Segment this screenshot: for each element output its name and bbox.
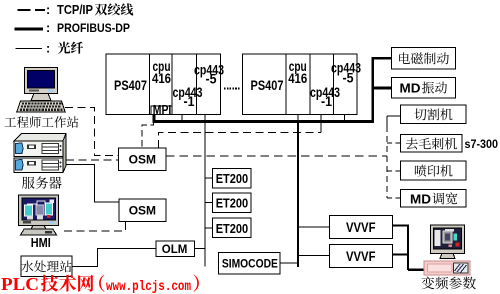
box ET200 #3 [213, 218, 252, 238]
wire dashed TCP/IP workstation to OSM [65, 108, 119, 156]
wire rack2 stub cpu [297, 115, 299, 120]
legend PROFIBUS-DP thick line sample [14, 28, 43, 31]
rack 1 PS407 [106, 54, 224, 115]
wire rack2 stub cp443-1 down to TCP/IP drop [320, 115, 322, 133]
svg-text:ET200: ET200 [216, 221, 249, 236]
workstation computer icon [17, 68, 65, 112]
svg-text:PS407: PS407 [251, 77, 284, 93]
box 喷印机 [401, 161, 467, 180]
dots between racks [224, 88, 241, 90]
wire PROFIBUS-DP main thick bus from MPI [153, 115, 375, 122]
svg-text::: : [46, 42, 50, 56]
rack 1 MPI port box [151, 103, 172, 117]
wire SIMOCODE to thick bus [280, 262, 298, 264]
HMI panel icon [19, 195, 59, 235]
wire dashed TCP/IP MPI jog to OSM top [142, 122, 153, 148]
wire PROFIBUS thick vertical drop to SIMOCODE/VVVF [297, 121, 299, 267]
wire dashed TCP/IP OSM right to s7-300 group [166, 155, 387, 157]
svg-text:ET200: ET200 [216, 171, 249, 186]
wire rack2 stub cp443-5 [344, 115, 346, 120]
box MD调宽 [401, 190, 467, 207]
svg-text:-1: -1 [321, 93, 332, 109]
svg-text:-5: -5 [343, 70, 354, 86]
svg-text:PLC: PLC [1, 274, 39, 294]
wire rack1 stub cp443-1 [181, 115, 183, 120]
legend label TCP/IP 双绞线 [46, 3, 133, 17]
wire VVVF left stubs [298, 227, 330, 256]
box 切割机 [401, 105, 467, 124]
box 水处理站 [21, 256, 72, 277]
wire s7-300 group dashed riser and stubs [387, 126, 401, 198]
wire dashed TCP/IP server to OSM [66, 159, 119, 161]
svg-text:HMI: HMI [31, 236, 51, 250]
wire PROFIBUS vertical drop to ET200/OLM [204, 115, 206, 267]
wire water station to OLM [72, 249, 156, 267]
wire VVVF right thick to frequency computer [392, 225, 424, 270]
svg-text:416: 416 [288, 70, 307, 86]
svg-text::: : [46, 21, 50, 35]
svg-text:s7-300: s7-300 [465, 139, 499, 151]
svg-text:VVVF: VVVF [346, 248, 376, 264]
svg-text:VVVF: VVVF [346, 219, 376, 235]
box 电磁制动 [391, 48, 455, 69]
svg-text:-1: -1 [184, 93, 195, 109]
svg-text:OSM: OSM [129, 204, 156, 218]
svg-text:PS407: PS407 [114, 77, 147, 93]
svg-text:PROFIBUS-DP: PROFIBUS-DP [57, 21, 130, 35]
svg-text:www.plcjs.com: www.plcjs.com [106, 280, 191, 294]
wire OLM to bus [195, 248, 205, 250]
wire dashed TCP/IP OSM to rack2 cp443-1 [158, 133, 321, 148]
rack 2 PS407 [243, 54, 362, 115]
wire ET200 stubs [205, 178, 213, 228]
wire s7-300 group riser (solid top) [387, 116, 401, 126]
svg-text:416: 416 [152, 70, 171, 86]
box VVVF #1 [330, 216, 393, 239]
svg-text:ET200: ET200 [216, 196, 249, 211]
box OSM upper [119, 148, 166, 171]
box MD振动 [391, 77, 455, 98]
label s7-300 [465, 139, 499, 151]
box ET200 #2 [213, 193, 252, 213]
label 变频参数 [422, 277, 476, 290]
legend label PROFIBUS-DP [46, 21, 130, 35]
legend label 光纤 [46, 42, 83, 56]
box 去毛刺机 [401, 135, 463, 153]
svg-text:-5: -5 [206, 71, 217, 87]
box ET200 #1 [213, 168, 252, 188]
svg-text::: : [46, 3, 50, 17]
legend fiber thin line sample [15, 48, 42, 50]
wire thick riser to brake boxes [373, 57, 392, 123]
label HMI [31, 236, 51, 250]
box SIMOCODE [219, 252, 281, 273]
wire dashed HMI to OSM2 [64, 221, 126, 231]
legend TCP/IP dashed line sample [18, 9, 46, 11]
svg-text:OSM: OSM [129, 153, 156, 167]
watermark PLC技术网（www.plcjs.com） [1, 274, 199, 294]
svg-text:TCP/IP: TCP/IP [57, 3, 93, 17]
svg-text:MPI: MPI [153, 103, 172, 117]
label 工程师工作站 [5, 116, 79, 128]
wire fiber server to OSM2 [66, 165, 119, 203]
box OLM [156, 241, 195, 256]
frequency parameters computer icon [424, 225, 470, 275]
label 服务器 [22, 176, 62, 189]
svg-text:MD: MD [410, 192, 431, 206]
svg-text:SIMOCODE: SIMOCODE [222, 257, 278, 271]
box VVVF #2 [330, 245, 393, 268]
svg-text:OLM: OLM [162, 244, 188, 256]
svg-text:MD: MD [400, 81, 421, 95]
server icon [14, 134, 66, 173]
box OSM lower [119, 199, 166, 221]
